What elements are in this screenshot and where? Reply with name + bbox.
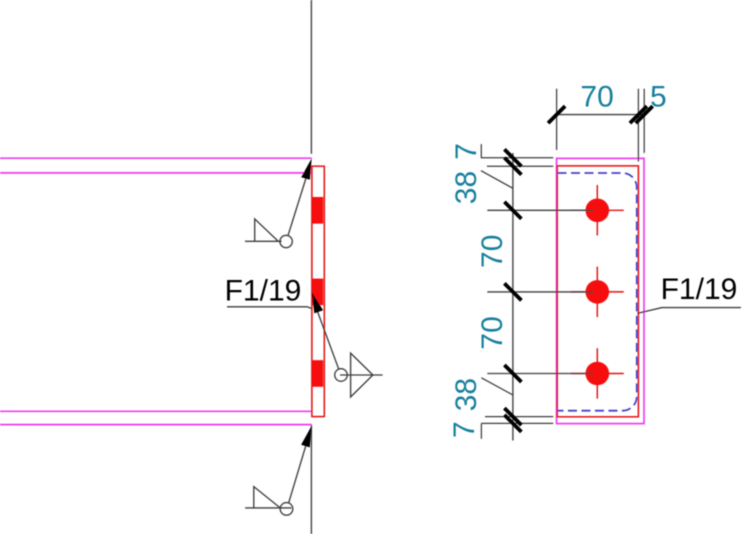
beam top flange upper line — [0, 157, 312, 159]
leader for dim text 7 bottom — [480, 423, 482, 438]
leader for dim text 38 top — [481, 171, 513, 189]
beam top flange lower line — [0, 172, 312, 174]
svg-text:38: 38 — [450, 378, 483, 411]
svg-text:5: 5 — [650, 81, 667, 114]
weld symbol W1 leader — [288, 177, 307, 236]
plate rear view red outline — [557, 166, 638, 417]
dim tick 7 bottom b — [504, 415, 521, 432]
extension line plate bottom — [481, 422, 553, 424]
svg-text:70: 70 — [580, 81, 613, 114]
end plate F1 front view outline — [312, 166, 324, 416]
beam bottom flange upper line — [0, 410, 312, 412]
bolt row 2 solid block (front view) — [312, 279, 323, 306]
top dimension extension line left — [556, 89, 558, 150]
weld symbol W1 reference line (top) — [245, 240, 282, 242]
svg-text:7: 7 — [450, 143, 483, 160]
top dimension extension line right — [643, 89, 645, 153]
leader for dim text 38 bottom — [481, 378, 513, 395]
label F1/19 left leader — [227, 307, 312, 309]
svg-text:F1/19: F1/19 — [661, 273, 738, 306]
bolt B3 — [586, 362, 610, 386]
top dim tick right — [636, 106, 653, 123]
dim tick 7 top a — [504, 149, 521, 166]
bolt B2 — [586, 280, 610, 304]
bolt row 1 solid block (front view) — [312, 197, 323, 224]
weld symbol W2 arrowhead — [312, 292, 323, 313]
weld symbol W1 circle — [280, 235, 292, 247]
vertical dimension line — [512, 153, 514, 441]
bolt B3 centre mark — [571, 348, 624, 399]
top dim tick left — [548, 106, 565, 123]
bolt B2 centre mark — [571, 267, 624, 318]
weld symbol W3 reference line (bottom) — [245, 507, 291, 509]
extension line red outline top — [487, 165, 553, 167]
leader for dim text 7 top — [480, 144, 482, 158]
weld symbol W3 fillet triangle — [254, 487, 280, 508]
top dim tick middle — [630, 106, 647, 123]
top dimension extension line middle — [637, 89, 639, 162]
dim tick 7 top b — [504, 158, 521, 175]
weld symbol W1 arrowhead — [301, 158, 312, 180]
weld symbol W2 flag triangle — [351, 353, 373, 397]
weld symbol W2 leader — [318, 312, 339, 370]
bolt B1 centre mark — [571, 185, 624, 236]
weld symbol W3 arrowhead — [301, 426, 312, 448]
dim tick 7 bottom a — [504, 408, 521, 425]
weld symbol W2 circle (middle right) — [335, 369, 348, 382]
weld symbol W3 leader — [289, 444, 307, 503]
svg-text:70: 70 — [476, 235, 509, 268]
bolt row 3 solid block (front view) — [312, 360, 323, 387]
svg-text:38: 38 — [450, 171, 483, 204]
construction centre line upper segment — [310, 0, 312, 154]
beam bottom flange lower line — [0, 424, 312, 426]
dim tick row3 — [504, 365, 521, 382]
extension line plate top — [481, 157, 553, 159]
weld symbol W2 reference line — [340, 374, 383, 376]
bolt row 3 extension line — [487, 373, 593, 375]
extension line red outline bottom — [485, 416, 553, 418]
plate rear view magenta outline — [557, 158, 644, 423]
dim tick row1 — [504, 202, 521, 219]
bolt row 1 extension line — [487, 209, 593, 211]
weld symbol W3 circle — [280, 503, 293, 516]
label F1/19 right leader — [637, 308, 741, 314]
dim tick row2 — [504, 283, 521, 300]
top dimension line — [557, 114, 646, 116]
bolt B1 — [586, 199, 610, 223]
svg-text:F1/19: F1/19 — [225, 275, 302, 308]
svg-text:70: 70 — [476, 316, 509, 349]
svg-text:7: 7 — [448, 421, 481, 438]
bolt row 2 extension line — [487, 291, 593, 293]
hidden beam profile dashed outline — [558, 173, 637, 411]
weld symbol W1 fillet triangle — [255, 219, 279, 241]
construction centre line lower segment — [310, 425, 312, 534]
